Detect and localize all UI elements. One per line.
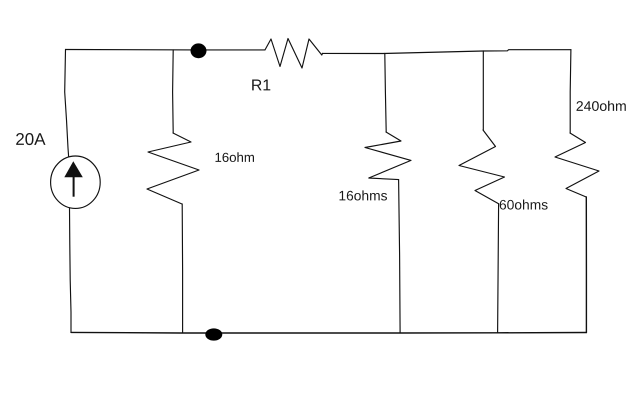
resistor R1 [265,39,323,69]
wire branch 60ohms upper lead [482,51,484,130]
wire branch 16ohm upper lead [172,50,175,133]
wire branch 240ohm upper lead [569,50,572,133]
wire branch 16ohm lower lead [181,204,183,333]
wire branch 16ohms upper lead [385,54,386,133]
wire bottom horizontal (node B) [71,331,586,334]
label 240ohm [577,101,626,111]
current source I1 arrow [64,161,83,197]
resistor 60ohms [459,130,505,204]
wire branch 240ohm lower lead [585,197,587,333]
label 16ohm [216,152,255,162]
resistor 240ohm [555,133,599,197]
node A junction dot [191,43,207,58]
wire top horizontal right segment [323,50,572,54]
wire top horizontal left segment (node A) [66,49,266,51]
label 20A [16,133,45,145]
wire left vertical (source bottom lead) [70,208,72,332]
label 16ohms [340,190,388,200]
label 60ohms [500,200,548,210]
wire branch 60ohms lower lead [498,204,499,333]
wire left vertical (source top lead) [65,50,69,157]
resistor 16ohms [365,132,411,180]
current source I1 circle [51,156,101,208]
node B junction dot [205,328,222,340]
resistor 16ohm [147,133,199,204]
label R1 [252,80,270,91]
wire branch 16ohms lower lead [399,180,401,333]
